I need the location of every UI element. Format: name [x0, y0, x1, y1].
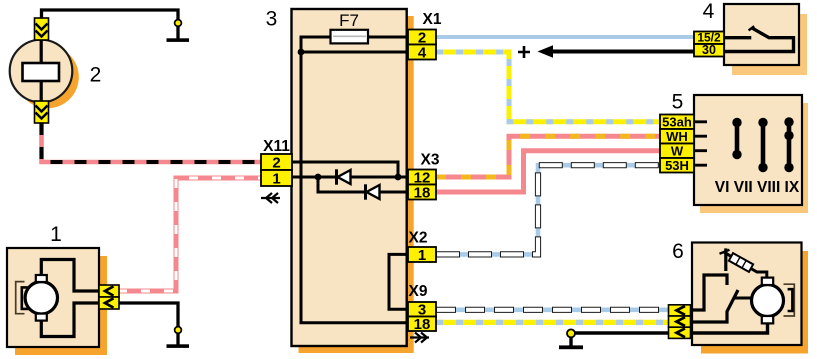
- svg-text:F7: F7: [339, 11, 359, 30]
- armature: [40, 40, 43, 101]
- svg-text:6: 6: [672, 240, 684, 263]
- svg-text:W: W: [671, 144, 684, 159]
- svg-text:X2: X2: [409, 230, 428, 247]
- svg-text:1: 1: [50, 223, 62, 246]
- ignition switch 4 shadow: [732, 14, 807, 75]
- contact bar VI-VII: [735, 123, 740, 155]
- block3 internal: X11.1 to X3.12 wire: [290, 176, 410, 179]
- connector X11 pin 2: [261, 154, 292, 170]
- motor 2 shadow: [16, 46, 79, 109]
- junction dot G3: [567, 329, 575, 337]
- wire: X3.18 to W pink: [436, 151, 661, 192]
- parking contact feed: [692, 275, 727, 310]
- block3 internal: X2.1 to X9.3 U wire: [389, 254, 410, 309]
- svg-text:4: 4: [703, 0, 715, 23]
- svg-text:1: 1: [272, 171, 280, 188]
- connector X2 pin 1: [408, 247, 436, 262]
- svg-text:X1: X1: [423, 11, 442, 28]
- light switch 5 shadow: [700, 103, 808, 213]
- svg-text:X11: X11: [263, 138, 290, 155]
- ground G1: [167, 38, 190, 42]
- thermal resistor diagonal: [724, 252, 767, 279]
- switch blade of 6: [692, 290, 738, 322]
- block3 internal: fuse wire left + main vertical + bottom run to X9.18: [301, 37, 410, 323]
- svg-text:3: 3: [266, 8, 278, 31]
- ground G2: [167, 344, 190, 348]
- connector pin 30: [694, 44, 724, 57]
- brush top: [36, 275, 47, 282]
- junction dot G2: [175, 327, 182, 334]
- motor circle: [25, 282, 57, 314]
- arrow in X11: [261, 193, 280, 203]
- svg-text:WH: WH: [666, 129, 688, 144]
- ground G3: [569, 333, 572, 346]
- contact bar VIII: [761, 123, 766, 168]
- connector X1 pin 4: [408, 45, 436, 60]
- stator bracket of 6 inner: [788, 289, 793, 311]
- block3 internal: X1.4 run: [301, 51, 410, 54]
- connector pin W: [660, 144, 694, 159]
- wiper motor 6 shadow: [701, 251, 808, 354]
- connector X3 pin 12: [408, 170, 436, 185]
- washer pump 1 body: [7, 248, 99, 347]
- mounting block 3 shadow: [299, 16, 414, 353]
- light switch 5 body: [694, 95, 802, 205]
- connector X11 pin 1: [261, 170, 292, 186]
- wire: pump1 to X11.1 pink/white: [118, 178, 262, 291]
- resistor body: [729, 253, 753, 272]
- svg-text:X9: X9: [409, 283, 428, 300]
- connector pair top of 2: [35, 18, 49, 40]
- wire: motor2 to X11.2 pink/black: [42, 123, 263, 162]
- svg-text:18: 18: [414, 184, 431, 201]
- ignition switch 4 body: [724, 4, 799, 65]
- blade end tick: [749, 26, 755, 30]
- wire: battery + feed arrow to pin 30: [548, 50, 695, 54]
- motor 2 body: [10, 40, 73, 103]
- connector pin 15/2: [694, 32, 724, 45]
- stator bracket outer: [16, 282, 25, 314]
- block3 internal: X11.2 wire: [290, 162, 398, 177]
- fuse F7: [331, 30, 369, 44]
- diode VD2: [364, 184, 367, 199]
- svg-text:1: 1: [418, 247, 426, 264]
- connector pin WH: [660, 129, 694, 144]
- connector pin 53H: [660, 158, 694, 173]
- svg-text:X3: X3: [421, 152, 440, 169]
- contact bar IX: [787, 122, 792, 168]
- connector pin 53ah: [660, 115, 694, 130]
- connector X1 pin 2: [408, 30, 436, 45]
- svg-text:18: 18: [414, 316, 431, 333]
- connector of 6: [669, 305, 691, 316]
- wire: motor2 top to ground: [42, 10, 179, 39]
- junction dot: [298, 49, 305, 56]
- pump M1 shadow: [15, 256, 107, 355]
- connector pair bottom of 2: [35, 101, 49, 123]
- svg-text:5: 5: [672, 91, 684, 114]
- wire: X1.4 to 53ah yellow/blue: [436, 52, 661, 122]
- svg-text:53H: 53H: [665, 158, 689, 173]
- svg-text:2: 2: [272, 155, 280, 172]
- wire: X9.18 to wiper6 yellow/blue: [436, 320, 670, 325]
- junction dot G1: [175, 20, 182, 27]
- mounting block 3 body: [292, 9, 407, 346]
- wire: pump1 to ground black: [118, 303, 178, 345]
- tick across post: [720, 250, 730, 254]
- contact post: [724, 248, 727, 271]
- connector X3 pin 18: [408, 185, 436, 200]
- connector X9 pin 18: [408, 317, 436, 332]
- connector of 1: [99, 285, 119, 297]
- wire: ground to wiper6 black: [571, 331, 670, 334]
- brush bottom: [36, 314, 47, 321]
- plus sign: [518, 46, 530, 58]
- svg-text:2: 2: [90, 64, 102, 87]
- ground run to motor: [692, 321, 768, 333]
- diode VD1: [335, 169, 338, 184]
- stator bracket inner: [22, 287, 29, 309]
- wire: X1.2 to 15/2 blue: [436, 35, 695, 39]
- blade to motor: [734, 297, 753, 300]
- svg-text:4: 4: [418, 44, 427, 61]
- wire: X3.12 to WH pink/yellow: [436, 136, 661, 177]
- wire: X2.1 to 53H white/blue: [436, 165, 661, 254]
- arrow out X9: [410, 333, 429, 343]
- junction dot: [395, 174, 402, 181]
- wiper motor 6 body: [692, 243, 802, 346]
- internal wiring: [41, 260, 100, 292]
- block3 internal: fuse wire right: [368, 36, 410, 39]
- pin stubs: [695, 122, 707, 165]
- connector X9 pin 3: [408, 302, 436, 317]
- junction dot: [315, 174, 322, 181]
- switch blade: [725, 28, 794, 52]
- svg-text:53ah: 53ah: [662, 115, 692, 130]
- stator bracket of 6 outer: [784, 284, 795, 316]
- ignition switch 4 internals: [725, 36, 751, 39]
- svg-text:30: 30: [702, 43, 716, 57]
- wire: X9.3 to wiper6 blue/white: [436, 307, 670, 312]
- block3 internal: branch to X3.18: [318, 177, 410, 192]
- svg-text:VI VII VIII IX: VI VII VIII IX: [715, 179, 800, 196]
- motor of 6: [752, 285, 784, 317]
